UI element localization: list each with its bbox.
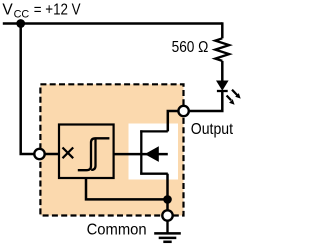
svg-text:CC: CC — [14, 8, 30, 20]
svg-text:560 Ω: 560 Ω — [172, 39, 209, 56]
wire: schmitt block ground return — [86, 178, 168, 199]
node: Vcc junction dot — [16, 19, 25, 28]
schmitt trigger block U1 — [59, 125, 114, 179]
wire: source down to common — [166, 174, 169, 216]
terminal: supply (left circle) — [34, 149, 44, 159]
ground symbol — [154, 221, 181, 242]
multiplier x symbol — [63, 148, 74, 159]
output stage white panel — [129, 124, 179, 180]
LED D1 triangle — [217, 81, 228, 90]
LED emission arrow 2 — [227, 96, 235, 105]
LED cathode bar — [217, 90, 228, 92]
wire: schmitt output to transistor gate — [114, 153, 168, 156]
wire: +12V top rail — [3, 22, 223, 25]
svg-text:= +12 V: = +12 V — [34, 2, 81, 19]
transistor Q1 bottom bar — [140, 173, 168, 175]
wire: input terminal to schmitt block — [40, 153, 60, 156]
wire: LED cathode down and left to output terminal — [184, 91, 223, 111]
svg-text:V: V — [2, 2, 13, 19]
node: common junction dot — [163, 195, 172, 204]
terminal: Common — [162, 210, 172, 220]
svg-text:Common: Common — [87, 221, 147, 238]
transistor Q1 arrow — [145, 146, 159, 162]
transistor Q1 left bar — [140, 130, 142, 174]
wire: right drop to resistor — [221, 22, 224, 38]
sensor body (dashed box) — [40, 84, 183, 215]
svg-text:Output: Output — [191, 121, 234, 138]
resistor R (560 ohm) — [215, 38, 229, 61]
wire: left leg from Vcc down to supply terminal — [21, 24, 40, 155]
wire: drain up to output terminal — [168, 111, 184, 131]
transistor Q1 top bar — [140, 130, 168, 132]
hysteresis symbol — [78, 138, 110, 170]
terminal: Output — [178, 106, 188, 116]
wire: resistor to LED — [221, 61, 224, 81]
LED emission arrow 1 — [232, 90, 241, 99]
